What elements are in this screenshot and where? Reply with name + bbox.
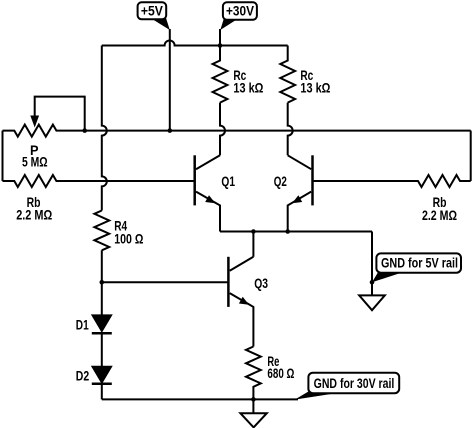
resistor Re 680 Ohm	[246, 347, 261, 400]
wire: Rc right to Q2 collector (hop over divider line)	[288, 103, 293, 156]
callout: +5V supply label	[151, 18, 170, 30]
diode D1	[93, 315, 111, 331]
node: Q3 base junction	[100, 280, 105, 285]
node: 5V ground callout anchor	[370, 280, 375, 285]
wire: 30V ground rail	[102, 398, 298, 400]
svg-text:D1: D1	[76, 316, 89, 332]
wire: left link between P and Rb	[2, 131, 4, 181]
svg-text:GND for 30V rail: GND for 30V rail	[314, 375, 395, 391]
resistor Rc (right) 13 kOhm	[280, 46, 295, 103]
wire: +30V drop from callout to rail	[219, 29, 221, 46]
transistor Q3 emitter	[230, 293, 254, 346]
transistor Q2 collector	[288, 155, 312, 169]
potentiometer P wiper arrow	[30, 116, 39, 128]
wire: Q3 base	[102, 281, 229, 283]
svg-text:100 Ω: 100 Ω	[114, 230, 143, 246]
callout: +30V supply label	[220, 18, 239, 30]
svg-text:680 Ω: 680 Ω	[267, 365, 294, 381]
svg-text:+30V: +30V	[226, 3, 255, 19]
wire: D1 to D2	[101, 333, 103, 367]
node: Q2 emitter junction	[285, 229, 290, 234]
node: Re / ground junction	[251, 397, 256, 402]
wire: emitter rail down to Q3 collector	[252, 232, 254, 257]
wire: D2 to 30V ground rail	[101, 384, 103, 400]
transistor Q3 collector	[230, 257, 254, 271]
callout: GND for 5V rail	[372, 272, 402, 283]
ground symbol for 30V rail	[252, 399, 254, 413]
transistor Q3 bar	[227, 257, 230, 307]
transistor Q1 emitter arrow	[205, 195, 215, 203]
node: +5V junction on divider line	[168, 128, 173, 133]
node: Q3 collector junction	[251, 229, 256, 234]
svg-text:2.2 MΩ: 2.2 MΩ	[16, 207, 52, 223]
wire: 5V ground drop	[371, 232, 373, 296]
node: wiper junction on divider line	[82, 128, 87, 133]
resistor Rc (left) 13 kOhm	[213, 46, 228, 103]
resistor Rb (left) 2.2 MOhm and wire to Q1 base	[3, 175, 195, 187]
svg-text:Q2: Q2	[274, 173, 287, 189]
transistor Q3 emitter arrow	[239, 297, 249, 305]
wire: Rc left to Q1 collector (hop over divider line)	[220, 103, 225, 156]
transistor Q1 collector	[196, 155, 220, 169]
svg-text:13 kΩ: 13 kΩ	[300, 79, 330, 95]
wire: emitter rail joining Q1 Q2 and 5V ground	[220, 231, 372, 233]
wire: left rail down-leg (hops over divider and base lines)	[102, 46, 107, 211]
svg-text:2.2 MΩ: 2.2 MΩ	[422, 207, 457, 223]
svg-text:GND for 5V rail: GND for 5V rail	[381, 255, 458, 271]
resistor R4 100 Ohm	[94, 211, 109, 251]
wire: right link from divider line down to Rb right	[470, 131, 472, 181]
wire: +30V top rail (hops over +5V drop wire)	[102, 41, 288, 46]
callout: GND for 30V rail	[295, 390, 331, 400]
svg-text:Q1: Q1	[221, 173, 235, 189]
svg-text:D2: D2	[76, 368, 90, 384]
ground symbol for 5V rail	[359, 295, 385, 310]
svg-text:Q3: Q3	[254, 275, 268, 291]
svg-text:13 kΩ: 13 kΩ	[233, 79, 263, 95]
diode D2	[93, 367, 111, 383]
transistor Q2 emitter	[288, 192, 312, 232]
wire: R4 bottom to diodes	[101, 250, 103, 315]
potentiometer P wiper arm	[35, 97, 85, 131]
wire: +5V drop from callout to divider line	[169, 29, 171, 131]
transistor Q1 emitter	[196, 192, 220, 232]
potentiometer P body and divider line to right edge	[3, 125, 471, 137]
transistor Q2 emitter arrow	[292, 195, 302, 203]
transistor Q2 bar	[311, 155, 314, 205]
node: +30V rail junction	[218, 43, 223, 48]
transistor Q1 bar	[193, 155, 196, 205]
svg-text:+5V: +5V	[141, 3, 164, 19]
svg-text:5 MΩ: 5 MΩ	[22, 153, 48, 169]
resistor Rb (right) 2.2 MOhm and wire to Q2 base	[313, 175, 471, 187]
